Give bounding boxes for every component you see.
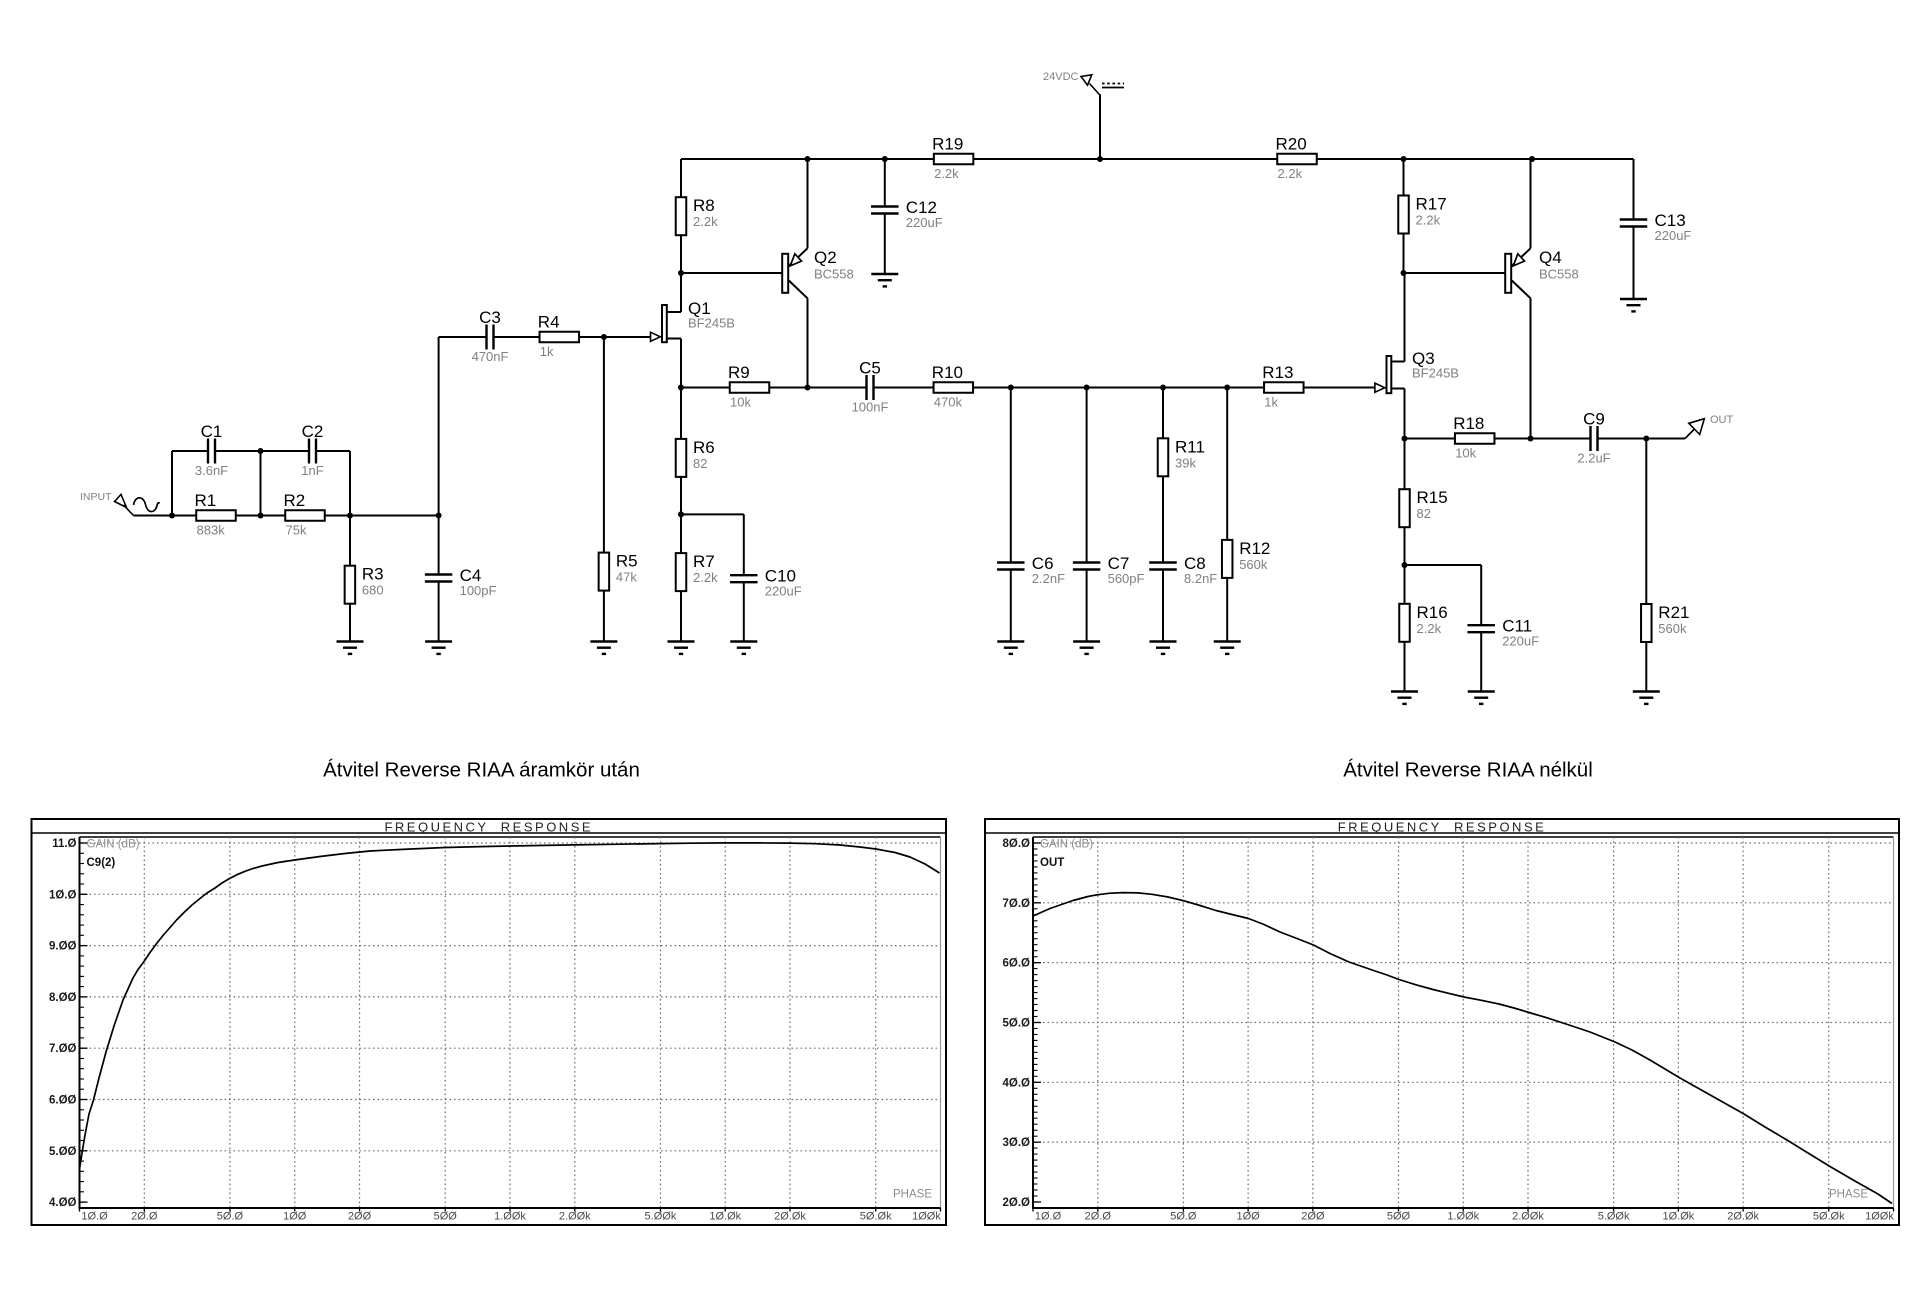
node G Q4 base node bbox=[1401, 270, 1407, 276]
node I Q2 collector node bbox=[805, 385, 811, 391]
svg-text:Q4: Q4 bbox=[1539, 248, 1562, 267]
ground bbox=[1468, 692, 1495, 704]
svg-text:8.ØØ: 8.ØØ bbox=[49, 992, 77, 1004]
wire C12 top lead bbox=[884, 159, 886, 207]
resistor R2 bbox=[284, 491, 325, 538]
svg-text:4Ø.Ø: 4Ø.Ø bbox=[1003, 1077, 1031, 1089]
plot-right plot area right edge bbox=[1893, 837, 1895, 1208]
svg-text:220uF: 220uF bbox=[1655, 228, 1692, 243]
wire R4 to node E bbox=[579, 336, 604, 338]
node C after R2 bbox=[347, 513, 353, 519]
wire rail right end down to C13 bbox=[1633, 159, 1635, 220]
svg-text:1Ø.Øk: 1Ø.Øk bbox=[709, 1211, 741, 1223]
svg-text:R18: R18 bbox=[1453, 414, 1484, 433]
svg-text:11.Ø: 11.Ø bbox=[52, 838, 76, 850]
capacitor C1 bbox=[195, 422, 228, 478]
wire C8 bottom lead bbox=[1162, 570, 1164, 642]
plot-left y axis ticks bbox=[81, 843, 88, 1202]
wire C13 bottom lead bbox=[1633, 227, 1635, 300]
svg-text:2.ØØk: 2.ØØk bbox=[559, 1211, 591, 1223]
svg-text:100nF: 100nF bbox=[852, 400, 889, 415]
svg-text:7.ØØ: 7.ØØ bbox=[49, 1043, 77, 1055]
wire R16 bottom lead bbox=[1404, 642, 1406, 692]
svg-text:2.ØØk: 2.ØØk bbox=[1512, 1211, 1544, 1223]
plot-left horizontal gridlines bbox=[81, 843, 941, 1151]
svg-text:GAIN (dB): GAIN (dB) bbox=[87, 839, 140, 851]
svg-text:2.2k: 2.2k bbox=[1278, 166, 1303, 181]
resistor R3 bbox=[345, 565, 384, 604]
wire Q4 base bbox=[1404, 272, 1505, 274]
svg-text:3Ø.Ø: 3Ø.Ø bbox=[1003, 1137, 1031, 1149]
plot-right y axis bbox=[1032, 837, 1034, 1208]
wire rail segment 1 bbox=[681, 158, 934, 160]
svg-text:R7: R7 bbox=[693, 552, 715, 571]
ground bbox=[1620, 299, 1647, 311]
svg-text:2.2k: 2.2k bbox=[693, 570, 718, 585]
resistor R4 bbox=[538, 313, 579, 360]
svg-text:2.2k: 2.2k bbox=[693, 214, 718, 229]
svg-text:1ØØk: 1ØØk bbox=[1865, 1211, 1894, 1223]
svg-text:FREQUENCY RESPONSE: FREQUENCY RESPONSE bbox=[1338, 820, 1547, 835]
node H Q1 source node bbox=[678, 385, 684, 391]
ground bbox=[997, 642, 1024, 654]
resistor R6 bbox=[676, 438, 715, 477]
ground bbox=[1391, 692, 1418, 704]
wire C4 top lead bbox=[438, 516, 440, 575]
svg-text:R9: R9 bbox=[728, 363, 750, 382]
svg-text:560pF: 560pF bbox=[1108, 571, 1145, 586]
svg-text:FREQUENCY RESPONSE: FREQUENCY RESPONSE bbox=[384, 820, 593, 835]
node rail junction at Q2 bbox=[805, 156, 811, 162]
input connector INPUT bbox=[80, 491, 160, 516]
wire R18 to C9 bbox=[1494, 438, 1590, 440]
wire C6 top lead bbox=[1010, 388, 1012, 563]
wire node C to C4 node bbox=[350, 515, 439, 517]
ground bbox=[1073, 642, 1100, 654]
node J at C6 bbox=[1008, 385, 1014, 391]
plot-left x axis bbox=[79, 1207, 941, 1209]
node O Q3 source node bbox=[1402, 436, 1408, 442]
wire node B up to C1/C2 junction bbox=[260, 451, 262, 516]
node D at C4 top bbox=[436, 513, 442, 519]
transistor Q2 (BC558 PNP) bbox=[782, 248, 854, 298]
plot-right frequency response curve bbox=[1033, 893, 1892, 1204]
wire R8 to base node bbox=[680, 235, 682, 273]
svg-text:PHASE: PHASE bbox=[893, 1189, 932, 1201]
resistor R21 bbox=[1641, 603, 1689, 642]
svg-text:470k: 470k bbox=[934, 395, 963, 410]
wire Q1 drain up bbox=[680, 273, 682, 312]
wire C2 right lead bbox=[316, 450, 350, 452]
capacitor C13 bbox=[1620, 211, 1692, 243]
svg-text:R3: R3 bbox=[362, 565, 384, 584]
wire C1 left lead bbox=[172, 450, 208, 452]
wire node C up to C2 bbox=[349, 451, 351, 516]
plot-right plot area top edge bbox=[1033, 836, 1894, 838]
svg-text:24VDC: 24VDC bbox=[1043, 71, 1079, 83]
svg-text:2Ø.Ø: 2Ø.Ø bbox=[1003, 1197, 1031, 1209]
wire R21 top lead bbox=[1645, 439, 1647, 605]
wire Q2 base bbox=[681, 272, 782, 274]
node rail junction at R17 bbox=[1401, 156, 1407, 162]
wire node R to C11 bbox=[1405, 564, 1482, 566]
svg-text:R15: R15 bbox=[1417, 488, 1448, 507]
transistor Q4 (BC558 PNP) bbox=[1505, 248, 1579, 298]
svg-text:470nF: 470nF bbox=[472, 349, 509, 364]
svg-text:BF245B: BF245B bbox=[688, 316, 735, 331]
svg-text:560k: 560k bbox=[1239, 557, 1268, 572]
wire R11 to C8 bbox=[1162, 476, 1164, 562]
resistor R18 bbox=[1453, 414, 1494, 461]
wire C11 top lead bbox=[1480, 565, 1482, 625]
plot-right x axis bbox=[1032, 1207, 1894, 1209]
svg-text:Q2: Q2 bbox=[814, 248, 837, 267]
capacitor C12 bbox=[871, 198, 943, 230]
node M at R12 bbox=[1224, 385, 1230, 391]
node rail junction at Q4 bbox=[1529, 156, 1535, 162]
svg-text:BC558: BC558 bbox=[814, 267, 854, 282]
node L at C8/R11 bbox=[1160, 385, 1166, 391]
plot-right title separator bbox=[985, 832, 1899, 834]
plot-right y axis labels bbox=[1003, 838, 1031, 1209]
svg-text:47k: 47k bbox=[616, 570, 637, 585]
svg-text:5Ø.Øk: 5Ø.Øk bbox=[860, 1211, 892, 1223]
svg-text:883k: 883k bbox=[197, 523, 226, 538]
svg-text:PHASE: PHASE bbox=[1829, 1189, 1868, 1201]
resistor R17 bbox=[1398, 195, 1446, 234]
plot-left y axis bbox=[79, 837, 81, 1208]
capacitor C6 bbox=[997, 554, 1065, 586]
svg-text:R16: R16 bbox=[1417, 603, 1448, 622]
svg-text:5ØØ: 5ØØ bbox=[434, 1211, 458, 1223]
wire R17 top lead bbox=[1403, 159, 1405, 196]
ground bbox=[590, 642, 617, 654]
resistor R1 bbox=[195, 491, 236, 538]
plot-left x axis labels bbox=[81, 1211, 941, 1223]
resistor R11 bbox=[1158, 437, 1205, 476]
svg-text:2.2k: 2.2k bbox=[1417, 621, 1442, 636]
svg-text:10k: 10k bbox=[1455, 446, 1476, 461]
wire node D up to gate line bbox=[438, 337, 440, 516]
wire R13 to Q3 gate bbox=[1303, 387, 1374, 389]
wire R15 to node R bbox=[1404, 527, 1406, 565]
wire R5 bottom lead bbox=[603, 591, 605, 642]
resistor R16 bbox=[1399, 603, 1447, 642]
svg-text:R17: R17 bbox=[1416, 195, 1447, 214]
svg-text:C9(2): C9(2) bbox=[87, 857, 116, 869]
ground bbox=[730, 642, 757, 654]
svg-text:5.ØØk: 5.ØØk bbox=[645, 1211, 677, 1223]
svg-text:5Ø.Øk: 5Ø.Øk bbox=[1813, 1211, 1845, 1223]
svg-text:R19: R19 bbox=[932, 135, 963, 154]
svg-text:R11: R11 bbox=[1175, 437, 1205, 456]
svg-text:R21: R21 bbox=[1658, 603, 1689, 622]
svg-text:R10: R10 bbox=[932, 363, 963, 382]
svg-text:R12: R12 bbox=[1239, 539, 1270, 558]
wire C10 bottom lead bbox=[743, 582, 745, 641]
capacitor C10 bbox=[730, 567, 802, 599]
svg-text:5Ø.Ø: 5Ø.Ø bbox=[1003, 1017, 1031, 1029]
resistor R12 bbox=[1222, 539, 1270, 578]
ground bbox=[337, 642, 364, 654]
plot-left y axis labels bbox=[49, 838, 77, 1209]
ground bbox=[668, 642, 695, 654]
svg-text:R2: R2 bbox=[284, 491, 306, 510]
ground bbox=[1633, 692, 1660, 704]
node Q output node bbox=[1643, 436, 1649, 442]
node B between R1 and R2 bbox=[258, 513, 264, 519]
svg-text:2Ø.Øk: 2Ø.Øk bbox=[774, 1211, 806, 1223]
wire C3 to R4 bbox=[494, 336, 540, 338]
resistor R20 bbox=[1276, 135, 1317, 182]
svg-text:1Ø.Ø: 1Ø.Ø bbox=[81, 1211, 108, 1223]
wire R11 top lead bbox=[1162, 388, 1164, 439]
svg-text:BF245B: BF245B bbox=[1412, 366, 1459, 381]
svg-text:7Ø.Ø: 7Ø.Ø bbox=[1003, 898, 1031, 910]
svg-text:INPUT: INPUT bbox=[80, 491, 112, 503]
svg-text:R6: R6 bbox=[693, 438, 715, 457]
resistor R15 bbox=[1399, 488, 1447, 527]
svg-text:3.6nF: 3.6nF bbox=[195, 463, 228, 478]
svg-text:680: 680 bbox=[362, 583, 384, 598]
wire R9 to C5 bbox=[769, 387, 867, 389]
svg-text:1nF: 1nF bbox=[301, 463, 323, 478]
svg-text:C3: C3 bbox=[479, 308, 501, 327]
wire C12 bottom lead bbox=[884, 214, 886, 275]
wire Q4 emitter up to rail bbox=[1530, 159, 1532, 248]
svg-text:2.2k: 2.2k bbox=[934, 166, 959, 181]
svg-text:5.ØØ: 5.ØØ bbox=[49, 1146, 77, 1158]
node N R6/R7/C10 node bbox=[678, 511, 684, 517]
svg-text:2ØØ: 2ØØ bbox=[348, 1211, 372, 1223]
wire gate line to C3 bbox=[439, 336, 487, 338]
svg-text:C1: C1 bbox=[201, 422, 223, 441]
wire input to node A bbox=[134, 515, 197, 517]
svg-text:R5: R5 bbox=[616, 552, 638, 571]
svg-text:75k: 75k bbox=[286, 523, 307, 538]
wire R3 top lead bbox=[349, 516, 351, 566]
svg-text:BC558: BC558 bbox=[1539, 267, 1579, 282]
wire rail segment 2 bbox=[973, 158, 1277, 160]
svg-text:5Ø.Ø: 5Ø.Ø bbox=[217, 1211, 244, 1223]
svg-text:39k: 39k bbox=[1175, 455, 1196, 470]
svg-text:1k: 1k bbox=[1264, 395, 1278, 410]
svg-text:8.2nF: 8.2nF bbox=[1184, 571, 1217, 586]
wire C5 to R10 bbox=[874, 387, 934, 389]
svg-text:OUT: OUT bbox=[1040, 857, 1064, 869]
output connector OUT bbox=[1685, 414, 1734, 439]
wire C4 bottom lead bbox=[438, 582, 440, 642]
wire C11 bottom lead bbox=[1480, 632, 1482, 691]
svg-text:560k: 560k bbox=[1658, 621, 1687, 636]
plot-left outer frame bbox=[32, 819, 947, 1225]
transistor Q3 (BF245B JFET) bbox=[1375, 349, 1459, 393]
node rail junction at C12 bbox=[882, 156, 888, 162]
svg-text:82: 82 bbox=[1417, 506, 1431, 521]
wire node A up to C1 bbox=[171, 451, 173, 516]
resistor R13 bbox=[1262, 363, 1303, 410]
wire R21 bottom lead bbox=[1645, 642, 1647, 692]
svg-text:2ØØ: 2ØØ bbox=[1301, 1211, 1325, 1223]
ground bbox=[1150, 642, 1177, 654]
svg-text:GAIN (dB): GAIN (dB) bbox=[1040, 839, 1093, 851]
svg-text:C5: C5 bbox=[859, 359, 881, 378]
node E gate node bbox=[601, 334, 607, 340]
capacitor C11 bbox=[1467, 617, 1539, 649]
svg-text:5.ØØk: 5.ØØk bbox=[1598, 1211, 1630, 1223]
svg-text:OUT: OUT bbox=[1710, 414, 1734, 426]
wire C10 top lead bbox=[743, 514, 745, 575]
wire C6 bottom lead bbox=[1010, 570, 1012, 642]
svg-text:Átvitel Reverse RIAA áramkör u: Átvitel Reverse RIAA áramkör után bbox=[323, 759, 640, 782]
wire signal to R9 bbox=[681, 387, 730, 389]
svg-text:Átvitel Reverse RIAA nélkül: Átvitel Reverse RIAA nélkül bbox=[1343, 759, 1593, 782]
svg-text:220uF: 220uF bbox=[765, 584, 802, 599]
transistor Q1 (BF245B JFET) bbox=[651, 299, 735, 342]
wire R10 to R13 bbox=[973, 387, 1265, 389]
svg-text:C9: C9 bbox=[1583, 410, 1605, 429]
plot-left x axis ticks bbox=[80, 1208, 941, 1212]
svg-text:R4: R4 bbox=[538, 313, 560, 332]
wire R6 top lead bbox=[680, 388, 682, 439]
plot-left frequency response curve bbox=[80, 843, 940, 1169]
svg-text:1Ø.Ø: 1Ø.Ø bbox=[49, 889, 77, 901]
wire R6 to node N bbox=[680, 477, 682, 515]
svg-text:100pF: 100pF bbox=[460, 583, 497, 598]
svg-text:2.2nF: 2.2nF bbox=[1032, 571, 1065, 586]
svg-text:220uF: 220uF bbox=[1502, 634, 1539, 649]
wire R5 top lead bbox=[603, 337, 605, 553]
node A input node bbox=[169, 513, 175, 519]
svg-text:4.ØØ: 4.ØØ bbox=[49, 1197, 77, 1209]
svg-text:82: 82 bbox=[693, 456, 707, 471]
svg-text:R1: R1 bbox=[195, 491, 217, 510]
svg-text:2.2uF: 2.2uF bbox=[1577, 451, 1610, 466]
wire R17 to base node bbox=[1403, 234, 1405, 274]
svg-text:1.ØØk: 1.ØØk bbox=[1447, 1211, 1479, 1223]
node P Q4 collector node bbox=[1528, 436, 1534, 442]
resistor R7 bbox=[676, 552, 718, 591]
plot-right outer frame bbox=[985, 819, 1899, 1225]
wire Q4 collector down bbox=[1530, 298, 1532, 438]
plot-left vertical gridlines bbox=[144, 837, 875, 1208]
resistor R5 bbox=[599, 552, 638, 591]
wire C1 to C2 bbox=[215, 450, 309, 452]
resistor R19 bbox=[932, 135, 973, 182]
node C1-C2 junction bbox=[258, 448, 264, 454]
svg-text:1ØØ: 1ØØ bbox=[283, 1211, 307, 1223]
capacitor C4 bbox=[425, 566, 497, 598]
wire R3 bottom lead bbox=[349, 604, 351, 642]
resistor R8 bbox=[676, 196, 718, 235]
resistor R9 bbox=[728, 363, 769, 410]
svg-text:2Ø.Ø: 2Ø.Ø bbox=[1085, 1211, 1112, 1223]
wire Q2 collector down bbox=[807, 298, 809, 387]
ground bbox=[425, 642, 452, 654]
svg-text:2.2k: 2.2k bbox=[1416, 213, 1441, 228]
plot-left plot area right edge bbox=[940, 837, 942, 1208]
svg-text:R20: R20 bbox=[1276, 135, 1307, 154]
plot-left title separator bbox=[32, 832, 947, 834]
wire R2 to R3 node bbox=[325, 515, 351, 517]
svg-text:6Ø.Ø: 6Ø.Ø bbox=[1003, 958, 1031, 970]
node R R15/R16/C11 node bbox=[1402, 562, 1408, 568]
plot-left plot area top edge bbox=[80, 836, 941, 838]
svg-text:6.ØØ: 6.ØØ bbox=[49, 1095, 77, 1107]
wire C7 bottom lead bbox=[1086, 570, 1088, 642]
node K at C7 bbox=[1084, 385, 1090, 391]
svg-text:C2: C2 bbox=[302, 422, 324, 441]
svg-text:5ØØ: 5ØØ bbox=[1387, 1211, 1411, 1223]
wire R12 bottom lead bbox=[1226, 578, 1228, 642]
node F Q2 base node bbox=[678, 270, 684, 276]
svg-text:5Ø.Ø: 5Ø.Ø bbox=[1170, 1211, 1197, 1223]
capacitor C5 bbox=[852, 359, 889, 415]
svg-text:2Ø.Øk: 2Ø.Øk bbox=[1727, 1211, 1759, 1223]
wire Q1 source down bbox=[680, 339, 682, 388]
plot-right x axis ticks bbox=[1033, 1208, 1894, 1212]
ground bbox=[871, 274, 898, 286]
svg-text:1.ØØk: 1.ØØk bbox=[494, 1211, 526, 1223]
svg-text:R13: R13 bbox=[1262, 363, 1293, 382]
plot-right horizontal gridlines bbox=[1034, 843, 1894, 1142]
plot-right vertical gridlines bbox=[1098, 837, 1829, 1208]
wire R16 top lead bbox=[1404, 565, 1406, 604]
wire rail left end down to R8 bbox=[680, 159, 682, 197]
wire C9 to OUT node bbox=[1598, 438, 1686, 440]
capacitor C7 bbox=[1073, 554, 1145, 586]
wire R7 bottom lead bbox=[680, 591, 682, 641]
wire R12 top lead bbox=[1226, 388, 1228, 540]
wire R7 top lead bbox=[680, 514, 682, 553]
power supply 24VDC bbox=[1043, 71, 1124, 159]
svg-text:R8: R8 bbox=[693, 196, 715, 215]
svg-text:1Ø.Ø: 1Ø.Ø bbox=[1035, 1211, 1062, 1223]
capacitor C9 bbox=[1577, 410, 1610, 466]
svg-text:10k: 10k bbox=[730, 395, 751, 410]
wire R15 top lead bbox=[1404, 439, 1406, 490]
svg-text:2Ø.Ø: 2Ø.Ø bbox=[131, 1211, 158, 1223]
plot-right x axis labels bbox=[1035, 1211, 1895, 1223]
plot-right y axis ticks bbox=[1034, 843, 1041, 1202]
capacitor C8 bbox=[1149, 554, 1217, 586]
wire node O to R18 bbox=[1405, 438, 1456, 440]
svg-text:8Ø.Ø: 8Ø.Ø bbox=[1003, 838, 1031, 850]
wire Q3 source down bbox=[1404, 389, 1406, 439]
wire Q2 emitter up to rail bbox=[807, 159, 809, 248]
svg-text:1ØØ: 1ØØ bbox=[1237, 1211, 1261, 1223]
wire C7 top lead bbox=[1086, 388, 1088, 563]
wire rail segment 3 bbox=[1317, 158, 1634, 160]
svg-text:1ØØk: 1ØØk bbox=[912, 1211, 941, 1223]
capacitor C2 bbox=[301, 422, 323, 478]
wire node E to Q1 gate bbox=[604, 336, 651, 338]
wire R1 to R2 bbox=[236, 515, 286, 517]
svg-text:9.ØØ: 9.ØØ bbox=[49, 941, 77, 953]
ground bbox=[1214, 642, 1241, 654]
svg-text:1Ø.Øk: 1Ø.Øk bbox=[1662, 1211, 1694, 1223]
capacitor C3 bbox=[472, 308, 509, 364]
svg-text:220uF: 220uF bbox=[906, 215, 943, 230]
svg-text:1k: 1k bbox=[540, 344, 554, 359]
wire Q3 drain up bbox=[1404, 273, 1406, 362]
node rail junction at 24VDC bbox=[1097, 156, 1103, 162]
wire node N to C10 bbox=[681, 513, 744, 515]
resistor R10 bbox=[932, 363, 973, 410]
